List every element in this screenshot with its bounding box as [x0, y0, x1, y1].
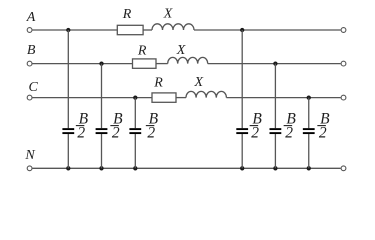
- capacitor C5 plate top: [270, 128, 282, 130]
- terminal N left: [27, 166, 32, 171]
- wire B right: [208, 63, 341, 65]
- junction dot A-right shunt: [240, 28, 244, 32]
- terminal C left: [27, 95, 32, 100]
- capacitor C6 value B/2 fraction bar: [317, 125, 326, 127]
- capacitor C4 value B/2 fraction bar: [250, 125, 259, 127]
- wire C mid: [176, 97, 186, 99]
- capacitor C3 plate top: [129, 128, 141, 130]
- junction dot N1: [66, 166, 70, 170]
- junction dot C-left shunt: [133, 95, 137, 99]
- terminal A left: [27, 28, 32, 33]
- svg-text:2: 2: [285, 124, 293, 141]
- inductor X3: [186, 91, 226, 97]
- capacitor C1 value B/2 fraction bar: [76, 125, 85, 127]
- wire shunt 5 lower: [274, 134, 276, 168]
- capacitor C6 plate bottom: [303, 132, 315, 134]
- wire shunt 4 upper: [241, 30, 243, 128]
- junction dot B-left shunt: [99, 61, 103, 65]
- wire shunt 4 lower: [241, 134, 243, 168]
- svg-text:2: 2: [112, 124, 120, 141]
- wire shunt 1 upper: [67, 30, 69, 128]
- svg-text:B: B: [27, 43, 36, 58]
- wire N: [33, 167, 341, 169]
- capacitor C5 value B/2 fraction bar: [284, 125, 293, 127]
- svg-text:R: R: [153, 75, 163, 90]
- svg-text:X: X: [194, 75, 204, 90]
- terminal B right: [341, 61, 346, 66]
- junction dot B-right shunt: [273, 61, 277, 65]
- wire C left: [33, 97, 153, 99]
- resistor R3: [152, 93, 176, 102]
- wire shunt 2 lower: [101, 134, 103, 168]
- capacitor C1 plate top: [62, 128, 74, 130]
- junction dot N4: [240, 166, 244, 170]
- wire A right: [194, 29, 341, 31]
- terminal A right: [341, 28, 346, 33]
- inductor X1: [152, 24, 194, 30]
- svg-text:C: C: [29, 80, 39, 95]
- terminal C right: [341, 95, 346, 100]
- wire A left: [33, 29, 118, 31]
- capacitor C4 plate top: [236, 128, 248, 130]
- junction dot N2: [99, 166, 103, 170]
- svg-text:2: 2: [147, 124, 155, 141]
- capacitor C4 plate bottom: [236, 132, 248, 134]
- svg-text:N: N: [24, 148, 35, 163]
- svg-text:2: 2: [251, 124, 259, 141]
- junction dot C-right shunt: [307, 95, 311, 99]
- wire shunt 6 lower: [308, 134, 310, 168]
- resistor R1: [117, 25, 143, 34]
- svg-text:R: R: [137, 43, 147, 58]
- capacitor C3 value B/2 fraction bar: [146, 125, 155, 127]
- junction dot N5: [273, 166, 277, 170]
- wire shunt 2 upper: [101, 64, 103, 129]
- svg-text:2: 2: [77, 124, 85, 141]
- wire B mid: [156, 63, 168, 65]
- svg-text:A: A: [26, 10, 36, 25]
- junction dot N3: [133, 166, 137, 170]
- svg-text:X: X: [176, 43, 186, 58]
- wire shunt 5 upper: [274, 64, 276, 129]
- wire shunt 6 upper: [308, 98, 310, 129]
- wire A mid: [143, 29, 152, 31]
- wire C right: [226, 97, 340, 99]
- wire shunt 3 upper: [134, 98, 136, 129]
- capacitor C5 plate bottom: [270, 132, 282, 134]
- junction dot A-left shunt: [66, 28, 70, 32]
- capacitor C6 plate top: [303, 128, 315, 130]
- resistor R2: [133, 59, 157, 68]
- terminal B left: [27, 61, 32, 66]
- terminal N right: [341, 166, 346, 171]
- capacitor C2 plate bottom: [96, 132, 108, 134]
- inductor X2: [168, 57, 208, 63]
- capacitor C3 plate bottom: [129, 132, 141, 134]
- capacitor C2 plate top: [96, 128, 108, 130]
- svg-text:X: X: [163, 6, 173, 21]
- wire shunt 1 lower: [67, 134, 69, 168]
- capacitor C2 value B/2 fraction bar: [110, 125, 119, 127]
- svg-text:R: R: [122, 7, 132, 22]
- wire shunt 3 lower: [134, 134, 136, 168]
- wire B left: [33, 63, 133, 65]
- capacitor C1 plate bottom: [62, 132, 74, 134]
- svg-text:2: 2: [319, 124, 327, 141]
- junction dot N6: [307, 166, 311, 170]
